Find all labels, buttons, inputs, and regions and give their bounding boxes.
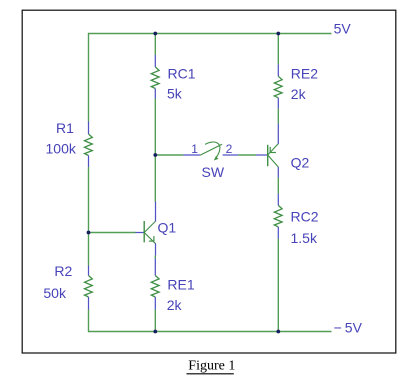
svg-text:5k: 5k xyxy=(167,86,183,102)
svg-text:R1: R1 xyxy=(56,120,74,136)
svg-text:2k: 2k xyxy=(167,297,183,313)
svg-text:50k: 50k xyxy=(43,285,67,301)
svg-text:100k: 100k xyxy=(46,141,77,157)
resistor RE1 xyxy=(151,259,159,310)
junction node: top rail / RE2 xyxy=(276,32,280,36)
svg-text:1.5k: 1.5k xyxy=(291,230,318,246)
svg-text:SW: SW xyxy=(202,164,225,180)
svg-text:−5V: −5V xyxy=(334,320,363,336)
wire: Q1 base from left branch xyxy=(89,232,136,234)
junction node: bottom rail / RC2 xyxy=(276,330,280,334)
resistor RC2 xyxy=(274,194,282,239)
svg-text:RC2: RC2 xyxy=(291,209,319,225)
svg-text:R2: R2 xyxy=(54,263,72,279)
switch SW xyxy=(155,142,238,161)
wire: right branch vertical xyxy=(277,33,279,332)
wire: +5V top rail xyxy=(89,33,332,35)
junction node: bottom rail / RE1 xyxy=(153,330,157,334)
resistor R2 xyxy=(85,266,93,310)
svg-text:RC1: RC1 xyxy=(168,65,196,81)
svg-text:5V: 5V xyxy=(334,21,352,37)
junction node: switch / middle branch xyxy=(153,153,157,157)
resistor RC1 xyxy=(151,55,159,99)
svg-text:2k: 2k xyxy=(291,86,307,102)
resistor R1 xyxy=(85,122,93,168)
svg-text:Q2: Q2 xyxy=(291,155,310,171)
wire: -5V bottom rail xyxy=(89,331,332,333)
svg-text:Q1: Q1 xyxy=(158,219,177,235)
transistor Q2 xyxy=(256,124,278,178)
junction node: top rail / RC1 xyxy=(153,32,157,36)
svg-text:RE1: RE1 xyxy=(167,276,194,292)
wire: switch to Q2 base xyxy=(238,154,256,156)
transistor Q1 xyxy=(136,202,156,256)
svg-text:Figure 1: Figure 1 xyxy=(188,359,235,374)
svg-text:RE2: RE2 xyxy=(291,66,318,82)
svg-text:2: 2 xyxy=(226,142,233,156)
resistor RE2 xyxy=(274,64,282,108)
junction node: Q1 base on left branch xyxy=(87,231,91,235)
svg-text:1: 1 xyxy=(191,142,198,156)
wire: middle branch vertical xyxy=(154,33,156,332)
wire: left branch vertical xyxy=(88,33,90,332)
